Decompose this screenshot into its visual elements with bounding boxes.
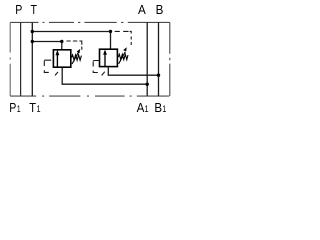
svg-text:P: P [15,2,22,17]
B port line [158,22,160,96]
enclosure top border [10,21,170,23]
port label A [138,2,146,17]
wire T to valve V2 top [32,31,110,33]
V2 pilot dashed line [93,61,105,76]
svg-text:P: P [9,100,16,115]
junction dot on A [146,83,149,86]
V2 outlet wire to B [108,67,158,75]
V2 flow arrow [104,54,106,67]
port label T1 [29,100,36,115]
svg-text:B: B [154,100,162,115]
V2 adjustment arrow [119,52,126,64]
valve V1 top stub wire [61,42,63,50]
P port line [20,22,22,96]
svg-text:B: B [156,2,164,17]
relief valve V1 body [53,50,70,67]
port label P1 [9,100,16,115]
port label A1 [137,100,145,115]
V1 pilot dashed line [44,60,58,75]
svg-text:1: 1 [17,104,21,114]
V1 vent dashed line [66,41,81,50]
wire T to valve V1 top [32,41,62,43]
svg-text:1: 1 [37,104,41,114]
junction dot on T upper [31,30,34,33]
enclosure left border [9,22,11,96]
T port line [31,22,33,96]
V1 spring [72,55,82,60]
port label B1 [154,100,162,115]
enclosure right border [169,22,171,96]
V2 vent dashed line [115,31,132,45]
svg-text:1: 1 [162,104,166,114]
junction dot on T lower [31,40,34,43]
svg-text:A: A [137,100,145,115]
port label T [31,2,38,17]
V2 spring [118,54,128,59]
svg-text:T: T [29,100,36,115]
junction dot valve V2 top node [109,30,112,33]
valve V2 top stub wire [110,32,112,50]
svg-text:A: A [138,2,146,17]
svg-text:1: 1 [145,104,149,114]
V1 flow arrow [56,54,58,67]
V1 adjustment arrow [72,52,79,64]
enclosure bottom border [10,95,169,97]
A port line [146,22,148,96]
junction dot valve V1 top node [60,40,63,43]
V1 outlet wire to A [62,68,147,84]
port label P [15,2,22,17]
svg-text:T: T [31,2,38,17]
port label B [156,2,164,17]
relief valve V2 body [100,49,118,66]
junction dot on B [157,74,160,77]
